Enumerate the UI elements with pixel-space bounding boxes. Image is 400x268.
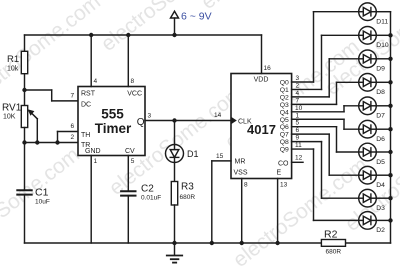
svg-text:VCC: VCC [127, 91, 142, 98]
svg-text:Q2: Q2 [280, 94, 289, 101]
svg-text:D1: D1 [187, 149, 199, 159]
svg-text:CO: CO [278, 161, 289, 168]
label RV1 10K [2, 103, 22, 121]
node RV1 bottom [22, 140, 26, 144]
ground symbol [167, 243, 182, 263]
LED D10 [359, 27, 377, 45]
wire D4 cathode to rail [376, 174, 390, 176]
node TH junction [55, 140, 59, 144]
wire 4017 pin16 VDD to rail [261, 35, 263, 74]
power supply arrow +6~9V [171, 11, 179, 35]
svg-text:10K: 10K [3, 114, 16, 121]
node rail D7 [388, 104, 392, 108]
LED D2 [359, 212, 377, 230]
wire Q5 pin1 to D6 [292, 119, 359, 129]
svg-text:Q8: Q8 [280, 139, 289, 146]
wire V+ top rail [25, 34, 262, 36]
node VSS/ground [240, 241, 244, 245]
wire D11 cathode to rail [376, 11, 390, 13]
svg-text:3: 3 [148, 113, 152, 120]
svg-text:6: 6 [296, 127, 300, 134]
svg-text:11: 11 [295, 142, 302, 149]
node MR/ground [210, 241, 214, 245]
svg-text:R1: R1 [7, 54, 19, 65]
node rail D6 [388, 127, 392, 131]
svg-text:VDD: VDD [254, 77, 269, 84]
wire junction to DC pin7 jog [25, 90, 79, 101]
CO pin12 stub [292, 161, 303, 163]
wire D9 cathode to rail [376, 58, 390, 60]
node wiper junction [35, 140, 39, 144]
svg-text:555: 555 [101, 107, 124, 122]
LED D1 [166, 145, 184, 163]
LED D6 [359, 120, 377, 138]
potentiometer RV1 [21, 106, 27, 128]
svg-text:6: 6 [71, 123, 75, 130]
IC U1 555 Timer labels [81, 91, 145, 156]
svg-text:Q0: Q0 [280, 80, 289, 87]
wire Q1 pin2 to D10 [292, 35, 359, 89]
node R1/RV1/DC junction [22, 88, 26, 92]
wire 555 pin8 VCC to rail [127, 35, 129, 87]
node pin4 rail [89, 33, 93, 37]
label R2 680R [324, 229, 341, 256]
svg-text:2: 2 [296, 82, 300, 89]
LED D9 [359, 50, 377, 68]
node rail D2 [388, 218, 392, 222]
svg-text:D8: D8 [376, 89, 385, 96]
svg-text:5: 5 [296, 120, 300, 127]
node Q/D1 junction [172, 118, 176, 122]
wire C1 to ground rail [24, 195, 26, 243]
svg-text:15: 15 [216, 153, 224, 160]
wire D3 cathode to rail [376, 197, 390, 199]
node rail D5 [388, 150, 392, 154]
svg-text:R2: R2 [324, 229, 338, 241]
wire VSS pin8 down [241, 179, 243, 244]
wire TR row [25, 142, 79, 144]
wire rail bottom to R2 [346, 242, 391, 244]
svg-text:680R: 680R [326, 249, 342, 256]
CLK input arrow [231, 117, 237, 124]
wire D6 cathode to rail [376, 128, 390, 130]
wire Q3 pin7 to D8 [292, 82, 359, 104]
svg-text:Q9: Q9 [280, 147, 289, 154]
svg-text:RV1: RV1 [2, 103, 22, 114]
svg-text:D10: D10 [376, 42, 389, 49]
svg-text:9: 9 [296, 135, 300, 142]
svg-text:7: 7 [296, 97, 300, 104]
svg-text:CLK: CLK [238, 119, 252, 126]
wire Q9 pin11 to D2 [292, 149, 359, 220]
capacitor C1 [17, 190, 31, 194]
wire Q0 pin3 to D11 [292, 12, 359, 82]
node rail D10 [388, 33, 392, 37]
wire Q7 pin6 to D4 [292, 134, 359, 175]
wire 555 pin4 RST to rail [90, 35, 92, 87]
svg-text:E: E [277, 170, 282, 177]
wire D5 cathode to rail [376, 151, 390, 153]
wire R1 bottom [24, 74, 26, 90]
svg-text:10uF: 10uF [35, 199, 50, 206]
wire C2 to ground rail [127, 196, 129, 243]
svg-text:D7: D7 [376, 113, 385, 120]
svg-text:0.01uF: 0.01uF [141, 195, 161, 202]
node pin8 rail [126, 33, 130, 37]
IC U2 4017 box [231, 74, 292, 179]
svg-text:Q7: Q7 [280, 132, 289, 139]
svg-text:6 ~ 9V: 6 ~ 9V [181, 11, 212, 23]
node rail D8 [388, 80, 392, 84]
svg-text:Q4: Q4 [280, 109, 289, 116]
LED D8 [359, 74, 377, 92]
svg-text:13: 13 [280, 182, 288, 189]
svg-text:CV: CV [125, 148, 135, 155]
resistor R2 [321, 240, 345, 247]
svg-text:16: 16 [264, 65, 272, 72]
svg-text:TH: TH [81, 132, 90, 139]
wire D8 cathode to rail [376, 81, 390, 83]
svg-text:C1: C1 [35, 187, 49, 199]
wire D1 to R3 [174, 162, 176, 181]
wire down to D1 [174, 121, 176, 145]
svg-text:5: 5 [131, 158, 135, 165]
node rail D3 [388, 196, 392, 200]
svg-text:7: 7 [71, 93, 75, 100]
svg-text:10: 10 [295, 105, 303, 112]
wire cathode rail [390, 12, 392, 243]
node E/ground [275, 241, 279, 245]
wire 555 pin1 GND down [90, 156, 92, 244]
LED D3 [359, 189, 377, 207]
svg-text:4: 4 [296, 90, 300, 97]
wire Q6 pin5 to D5 [292, 127, 359, 152]
wire R3 to ground rail [174, 205, 176, 243]
svg-text:R3: R3 [181, 182, 194, 193]
svg-text:14: 14 [214, 112, 222, 119]
svg-text:4: 4 [94, 78, 98, 85]
capacitor C2 [121, 191, 135, 195]
wire Q output to CLK [145, 120, 231, 122]
svg-text:D9: D9 [376, 66, 385, 73]
LED D11 [359, 3, 377, 21]
label C1 10uF [35, 187, 50, 206]
wire ground rail [25, 242, 322, 244]
svg-text:3: 3 [296, 75, 300, 82]
svg-text:Q1: Q1 [280, 87, 289, 94]
LED D5 [359, 143, 377, 161]
svg-text:C2: C2 [141, 184, 154, 195]
wire D7 cathode to rail [376, 105, 390, 107]
node rail D9 [388, 57, 392, 61]
label R3 680R [180, 182, 196, 202]
svg-text:Q: Q [137, 117, 145, 128]
wire to C1 [24, 143, 26, 190]
svg-text:8: 8 [131, 78, 135, 85]
label C2 0.01uF [141, 184, 161, 202]
svg-text:12: 12 [295, 155, 303, 162]
svg-text:D4: D4 [376, 182, 385, 189]
op 555 box [78, 87, 145, 156]
svg-text:Timer: Timer [95, 121, 132, 136]
wire RV1 bottom [24, 128, 26, 143]
wire top rail to R1 [24, 35, 26, 51]
RV1 wiper arrow [28, 109, 38, 142]
svg-text:1: 1 [296, 112, 300, 119]
svg-text:Q5: Q5 [280, 117, 289, 124]
wire D10 cathode to rail [376, 34, 390, 36]
svg-text:10k: 10k [7, 66, 19, 73]
wire 555 pin5 CV down [127, 156, 129, 191]
node rail D4 [388, 173, 392, 177]
wire Q4 pin10 to D7 [292, 106, 359, 112]
LED D4 [359, 166, 377, 184]
svg-text:Q6: Q6 [280, 124, 289, 131]
svg-text:8: 8 [244, 182, 248, 189]
wire Q2 pin4 to D9 [292, 59, 359, 97]
svg-text:MR: MR [235, 158, 246, 165]
4017 labels [234, 77, 290, 177]
node R3/ground [172, 241, 176, 245]
junction top rail / supply [172, 33, 176, 37]
svg-text:680R: 680R [180, 194, 196, 201]
svg-text:D6: D6 [376, 136, 385, 143]
resistor R1 [21, 51, 27, 73]
svg-text:Q3: Q3 [280, 102, 289, 109]
svg-text:1: 1 [94, 158, 98, 165]
wire TH jog to pin6 [58, 132, 79, 143]
svg-text:D11: D11 [376, 19, 388, 26]
wire Q8 pin9 to D3 [292, 142, 359, 199]
resistor R3 [171, 182, 177, 206]
wire D2 cathode to rail [376, 219, 390, 221]
wire E pin13 down [277, 179, 279, 244]
LED D7 [359, 97, 377, 115]
svg-text:RST: RST [81, 91, 96, 98]
svg-text:D3: D3 [376, 205, 385, 212]
svg-text:2: 2 [71, 134, 75, 141]
svg-text:D2: D2 [376, 227, 385, 234]
svg-text:D5: D5 [376, 159, 385, 166]
svg-text:GND: GND [85, 148, 101, 155]
wire MR pin15 [212, 161, 231, 243]
wire to RV1 [24, 90, 26, 106]
svg-text:VSS: VSS [234, 170, 248, 177]
label R1 10k [7, 54, 19, 73]
svg-text:DC: DC [81, 102, 91, 109]
